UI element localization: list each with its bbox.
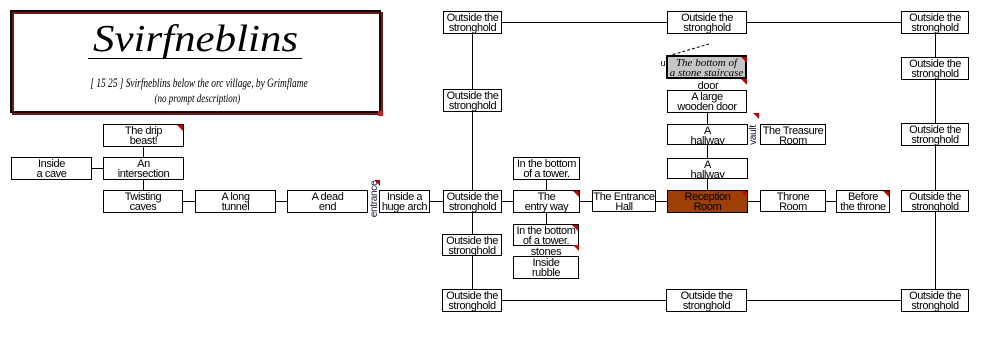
wire ML col seg4 xyxy=(472,256,474,289)
exit label stones xyxy=(516,246,576,258)
room Outside the stronghold R2 xyxy=(901,57,969,80)
room Inside rubble xyxy=(513,256,579,279)
room Outside the stronghold R4 xyxy=(901,190,969,212)
subtitle line 1 xyxy=(56,75,343,91)
room In the bottom of a tower lower xyxy=(513,224,579,246)
note marker on room The drip beast xyxy=(177,125,183,131)
wire outsideML-entry xyxy=(502,201,513,203)
room Outside the stronghold ML5 xyxy=(442,289,502,312)
wire ML col seg2 xyxy=(472,112,474,190)
room The entry way xyxy=(513,190,580,213)
room In the bottom of a tower upper xyxy=(513,157,580,180)
exit label vault (rotated) xyxy=(748,105,759,165)
room Inside a huge arch xyxy=(379,190,430,213)
room Outside the stronghold R5 xyxy=(901,289,969,312)
room A dead end xyxy=(287,190,368,213)
wire top row right xyxy=(747,22,901,24)
room Twisting caves xyxy=(103,190,183,213)
wire hall-reception xyxy=(656,201,667,203)
room A long tunnel xyxy=(195,190,276,213)
wire cave-intersection xyxy=(92,168,103,170)
room Outside the stronghold M-top xyxy=(667,11,747,34)
title underline xyxy=(88,58,302,59)
note marker on room The entry way xyxy=(573,191,579,197)
note marker on staircase xyxy=(741,57,747,63)
wire throne-before xyxy=(826,201,836,203)
room The Treasure Room xyxy=(760,124,826,145)
title resize handle xyxy=(378,111,383,116)
room The drip beast xyxy=(103,124,184,147)
wire entry-hall xyxy=(580,201,592,203)
wire hallway2-reception xyxy=(707,179,709,190)
room Inside a cave xyxy=(11,157,92,180)
wire top row left xyxy=(502,22,667,24)
note marker stones exit xyxy=(573,245,579,251)
title text Svirfneblins xyxy=(0,20,416,58)
room The bottom of a stone staircase (selected, gray) xyxy=(666,55,747,79)
room Outside the stronghold ML1 xyxy=(443,11,502,34)
room A hallway 1 xyxy=(667,124,748,145)
wire twisting-tunnel xyxy=(183,201,195,203)
wire drip-intersection xyxy=(143,147,145,157)
note marker door exit xyxy=(741,79,747,85)
title frame red shadow xyxy=(12,12,383,115)
note marker entrance exit xyxy=(374,180,380,186)
exit label door xyxy=(678,80,738,92)
room Throne Room xyxy=(760,190,826,212)
dashed up-exit line from stone staircase xyxy=(668,44,709,56)
room Outside the stronghold ML2 xyxy=(443,89,502,112)
note marker vault exit xyxy=(753,113,759,119)
wire R col seg1 xyxy=(935,34,937,57)
wire R col seg3 xyxy=(935,146,937,190)
room Outside the stronghold ML3 xyxy=(443,190,502,213)
room A hallway 2 xyxy=(667,158,748,179)
room The Entrance Hall xyxy=(592,190,656,212)
wire bottom row right xyxy=(747,300,901,302)
wire ML col seg3 xyxy=(472,213,474,234)
wire R col seg4 xyxy=(935,212,937,289)
room Outside the stronghold ML4 xyxy=(442,234,502,256)
exit label entrance (rotated) xyxy=(369,169,380,229)
room Outside the stronghold M-bot xyxy=(666,289,747,312)
exit label u (up) xyxy=(658,58,668,68)
note marker on room In the bottom of a tower lower xyxy=(572,225,578,231)
room A large wooden door xyxy=(667,90,747,113)
wire wooden-hallway1 xyxy=(707,113,709,124)
room Reception Room (current room, highlighted) xyxy=(667,190,748,213)
room Outside the stronghold R3 xyxy=(901,123,969,146)
wire tunnel-deadend xyxy=(276,201,287,203)
title frame black box xyxy=(10,10,381,113)
room Before the throne xyxy=(836,190,890,213)
wire entry-towerdn xyxy=(546,213,548,224)
note marker on room Before the throne xyxy=(883,191,889,197)
wire reception-throne xyxy=(748,201,760,203)
room Outside the stronghold R1 xyxy=(901,11,969,34)
room An intersection xyxy=(103,157,184,180)
wire ML col seg1 xyxy=(472,34,474,89)
wire bottom row left xyxy=(502,300,666,302)
wire towerup-entry xyxy=(546,180,548,190)
subtitle line 2 xyxy=(49,91,345,106)
wire R col seg2 xyxy=(935,80,937,123)
wire intersection-twisting xyxy=(143,180,145,190)
wire hallway1-hallway2 xyxy=(707,145,709,158)
wire arch-outsideML xyxy=(430,201,443,203)
